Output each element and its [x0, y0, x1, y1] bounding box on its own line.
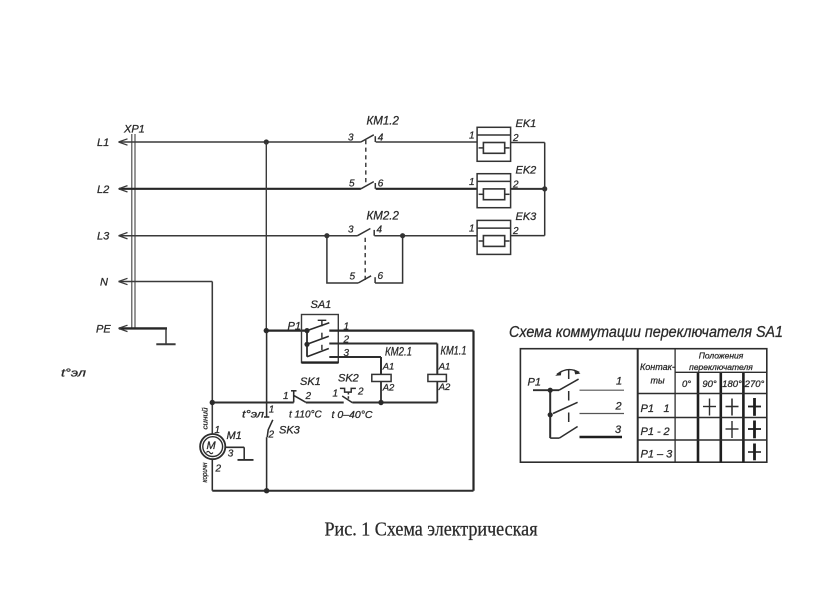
arrow L3 [119, 233, 128, 239]
sketch contact line 1 [580, 389, 625, 391]
svg-text:Р1: Р1 [288, 321, 301, 333]
SA1 pole 2 arm [307, 336, 329, 344]
svg-text:SA1: SA1 [311, 299, 332, 311]
motor M1 [200, 407, 253, 490]
node branch right [400, 233, 405, 238]
cross P1-3 / 270 [748, 444, 761, 461]
SA1 box [302, 315, 339, 363]
svg-text:Р1: Р1 [641, 426, 654, 438]
svg-text:2: 2 [268, 430, 275, 441]
svg-text:6: 6 [378, 179, 384, 190]
svg-text:EK1: EK1 [516, 118, 537, 130]
sketch pole 3 arm [550, 437, 559, 439]
heater EK3 [469, 211, 537, 254]
svg-text:EK2: EK2 [516, 164, 537, 176]
contact KM1.2 pole 5-6 [361, 182, 375, 189]
svg-text:Р1: Р1 [528, 377, 541, 389]
node rail/KM2.1 [378, 400, 383, 405]
cross P1-1 / 270 [748, 398, 761, 416]
table row lines [638, 394, 767, 441]
SA1 handle mark [318, 320, 327, 326]
SA1 pole 3 arm [307, 349, 329, 357]
svg-text:SK2: SK2 [338, 373, 359, 385]
svg-text:2: 2 [615, 401, 622, 413]
svg-text:L2: L2 [97, 184, 109, 196]
wire L3 [119, 235, 477, 237]
svg-text:М: М [207, 440, 217, 452]
arrow L1 [119, 139, 128, 145]
arrow N [119, 278, 128, 284]
svg-text:XP1: XP1 [123, 124, 145, 136]
svg-text:PE: PE [96, 323, 111, 335]
svg-text:t°эл: t°эл [61, 368, 86, 380]
wire EK common return [511, 143, 545, 236]
node rail/N [210, 400, 215, 405]
svg-text:4: 4 [377, 224, 383, 235]
sketch handle axis dashed [568, 370, 570, 431]
svg-text:1: 1 [469, 131, 475, 142]
cross P1-1 / 180 [726, 399, 739, 416]
svg-text:синий: синий [202, 407, 210, 429]
svg-text:1: 1 [469, 177, 475, 188]
arrow L2 [119, 186, 128, 192]
svg-text:t 0–40°С: t 0–40°С [332, 409, 373, 421]
coil KM2.1 [372, 346, 412, 402]
wire SA1 feed drop from L1 [265, 142, 267, 331]
connector XP1 double line [132, 134, 135, 328]
svg-text:1: 1 [283, 391, 289, 402]
svg-text:-: - [657, 426, 661, 438]
cross P1-1 / 90 [703, 399, 716, 416]
svg-text:3: 3 [228, 449, 234, 460]
svg-text:КМ1.2: КМ1.2 [367, 115, 400, 127]
wire L2 [119, 188, 477, 190]
svg-text:1: 1 [215, 425, 221, 436]
svg-text:SK3: SK3 [279, 425, 301, 437]
wire SA1 out1 to bottom rail [329, 331, 473, 491]
SA1 pole 1 arm [307, 323, 329, 331]
svg-text:Р1: Р1 [641, 403, 654, 415]
contact KM2.2 pole 5-6 [358, 276, 375, 283]
wire control rail [212, 402, 437, 404]
table header underline [675, 371, 767, 373]
svg-text:КМ1.1: КМ1.1 [441, 346, 467, 358]
contactor KM2.2 [324, 210, 405, 283]
svg-text:Контак-: Контак- [640, 362, 675, 372]
node EK common [542, 186, 547, 191]
ground PE earth [156, 328, 175, 344]
svg-text:t 110°С: t 110°С [289, 410, 322, 421]
svg-text:Р1 – 3: Р1 – 3 [641, 449, 674, 461]
svg-text:переключателя: переключателя [689, 362, 753, 372]
switch SA1 [302, 299, 350, 363]
table divider contacts col [674, 349, 676, 463]
mechanical link KM2.2 [364, 238, 366, 281]
sketch common wire [533, 389, 559, 391]
wire P1 input [266, 330, 307, 332]
svg-text:КМ2.1: КМ2.1 [385, 346, 412, 358]
coil KM1.1 [428, 346, 467, 403]
node L1/SA1 feed junction [264, 139, 269, 144]
svg-text:5: 5 [349, 179, 355, 190]
SA1 common bus [306, 331, 308, 357]
svg-text:180°: 180° [722, 379, 742, 390]
wire L1 [119, 141, 477, 143]
svg-text:4: 4 [378, 133, 384, 144]
svg-text:EK3: EK3 [516, 211, 538, 223]
thermal switch SK2 [332, 373, 373, 422]
svg-text:Рис. 1 Схема электрическая: Рис. 1 Схема электрическая [325, 519, 538, 541]
svg-text:А1: А1 [438, 362, 451, 373]
svg-text:1: 1 [616, 376, 622, 388]
wire PE [119, 327, 167, 329]
svg-text:2: 2 [305, 391, 312, 402]
svg-text:1: 1 [333, 389, 339, 400]
svg-text:L1: L1 [97, 137, 109, 149]
svg-text:3: 3 [348, 224, 354, 235]
svg-text:А2: А2 [438, 382, 451, 393]
svg-text:t°эл: t°эл [242, 410, 264, 421]
sketch contact line 2 [580, 413, 625, 415]
svg-text:N: N [100, 277, 108, 289]
sketch rotation arc [557, 370, 579, 375]
wire SA1 out3 to KM2.1 [329, 357, 381, 374]
sketch pole 1 arm [559, 379, 579, 390]
svg-text:L3: L3 [97, 231, 110, 243]
sketch pole 2 arm [553, 402, 578, 413]
wire motor pin2 [211, 459, 213, 491]
contact KM1.2 pole 3-4 [361, 135, 375, 142]
svg-text:2: 2 [215, 464, 222, 475]
svg-text:А1: А1 [382, 362, 395, 373]
svg-text:2: 2 [663, 426, 670, 438]
mechanical link KM1.2 [365, 140, 367, 186]
cross P1-2 / 270 [748, 421, 761, 439]
contact KM2.2 pole 3-4 [358, 229, 375, 236]
svg-text:Положения: Положения [699, 351, 744, 361]
heater EK2 [469, 164, 536, 207]
wire bottom rail [212, 490, 473, 492]
table outer box [520, 349, 766, 463]
svg-text:ты: ты [651, 376, 665, 386]
node bottom rail/SK3 [264, 488, 269, 493]
svg-text:коричн: коричн [202, 462, 209, 482]
svg-text:90°: 90° [702, 379, 717, 390]
table SA1 commutation [520, 349, 766, 463]
cross P1-2 / 180 [726, 421, 739, 438]
thermal switch SK1 [283, 376, 322, 421]
node SA1 feed [264, 328, 269, 333]
svg-text:6: 6 [378, 271, 384, 282]
svg-text:3: 3 [615, 424, 622, 436]
heater EK1 [469, 118, 536, 161]
svg-text:КМ2.2: КМ2.2 [367, 210, 400, 222]
svg-text:5: 5 [350, 272, 356, 283]
contactor KM1.2 [348, 115, 399, 189]
svg-text:1: 1 [664, 403, 670, 415]
arrow PE [119, 325, 128, 331]
svg-text:1: 1 [269, 405, 275, 416]
svg-text:1: 1 [469, 224, 475, 235]
svg-text:2: 2 [357, 387, 364, 398]
svg-text:0°: 0° [682, 379, 691, 390]
table thick column lines [698, 372, 743, 462]
svg-text:А2: А2 [382, 383, 395, 394]
sketch switch P1 [528, 369, 625, 438]
svg-text:3: 3 [348, 133, 354, 144]
svg-text:М1: М1 [227, 430, 242, 442]
wire SA1 out2 to KM1.1 [329, 344, 437, 375]
sketch contact line 3 [580, 436, 623, 438]
svg-text:Схема коммутации переключателя: Схема коммутации переключателя SA1 [509, 324, 783, 341]
thermal switch SK3 [242, 331, 301, 491]
wire N [119, 282, 212, 435]
svg-text:270°: 270° [744, 379, 765, 390]
wire KM2.2 parallel branch [327, 236, 403, 283]
wire motor pin3 to earth [225, 447, 253, 460]
node branch left [324, 233, 329, 238]
svg-text:SK1: SK1 [300, 376, 321, 388]
table divider sketch/matrix [637, 349, 639, 463]
